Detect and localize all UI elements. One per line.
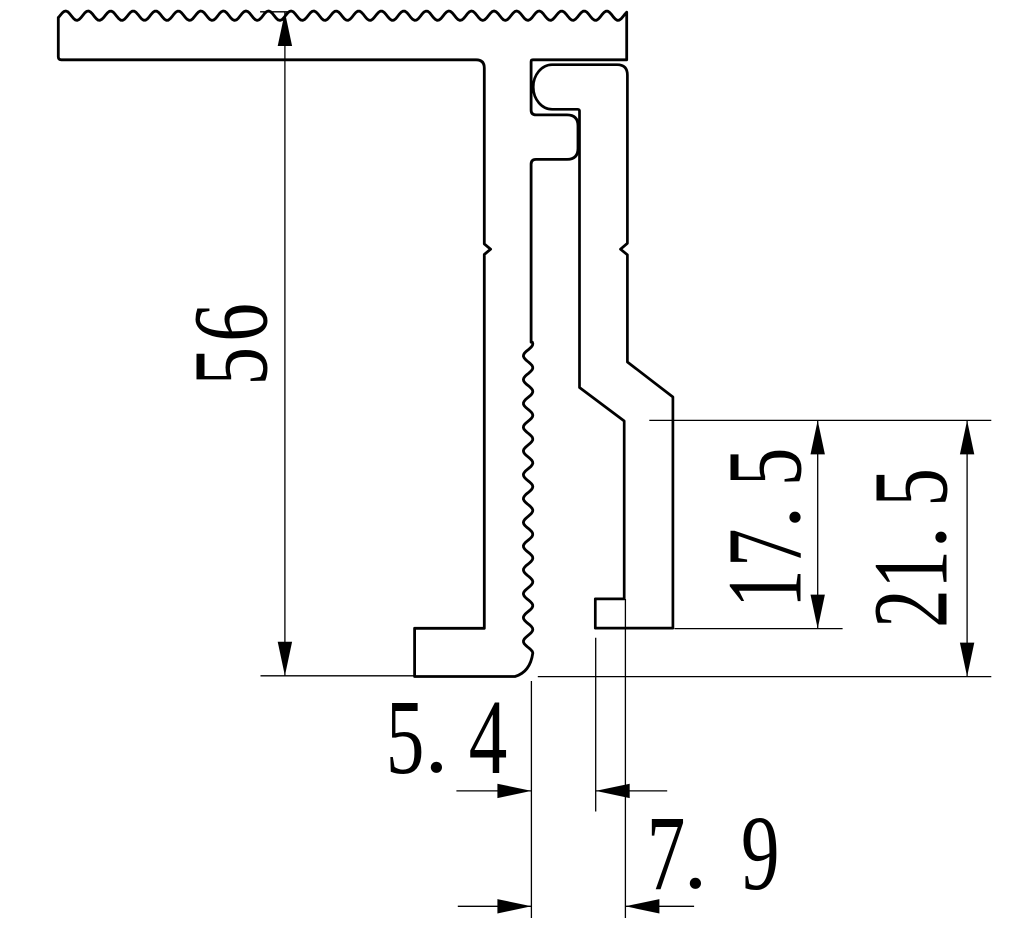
svg-text:6: 6 [172,303,290,342]
dim 56 top arrow [278,12,292,46]
svg-text:2: 2 [852,589,970,628]
dim 17.5 top arrow [811,420,825,454]
dim 56 top extension line [260,11,292,13]
bottom extension line right [538,676,992,678]
bottom extension line left [261,675,415,677]
dim 7.9 left arrow [497,899,531,913]
dim text 5.4 decimal point [431,762,442,773]
svg-text:9: 9 [741,795,780,913]
dim 56 dimension line [284,12,286,676]
extension line x595 vertical [595,638,597,812]
shoulder extension line y421 [649,419,991,421]
dim 5.4 right arrow [596,784,630,798]
clamp profile part B (hook head + web + foot) [533,65,673,628]
svg-text:5: 5 [386,679,425,797]
dim 7.9 line left part [458,905,532,907]
dim text 7.9 decimal point [690,878,701,889]
dim 7.9 right arrow [625,899,659,913]
dim text 17.5 decimal point [789,512,800,523]
svg-text:5: 5 [706,448,824,487]
svg-text:4: 4 [469,679,508,797]
dim 56 bottom arrow [278,642,292,676]
svg-text:7: 7 [706,528,824,567]
svg-text:1: 1 [852,550,970,589]
svg-text:7: 7 [647,795,686,913]
dim 7.9 line right part [625,905,694,907]
dim text 21.5 decimal point [935,532,946,543]
extension line x625 vertical [624,599,626,918]
main profile part A (top bar + serrated stem + foot) [58,11,626,677]
dim 21.5 dimension line [966,420,968,676]
dim 5.4 line left part [456,790,531,792]
svg-text:5: 5 [852,468,970,507]
dim 21.5 top arrow [960,420,974,454]
svg-text:5: 5 [172,347,290,386]
dim 21.5 bottom arrow [960,643,974,677]
foot extension line y628 [675,628,843,630]
dim 5.4 left arrow [497,784,531,798]
extension line x531 vertical [530,681,532,918]
dim 5.4 line right part [596,790,668,792]
dim 17.5 dimension line [817,420,819,628]
svg-text:1: 1 [706,569,824,608]
dim 17.5 bottom arrow [811,595,825,629]
